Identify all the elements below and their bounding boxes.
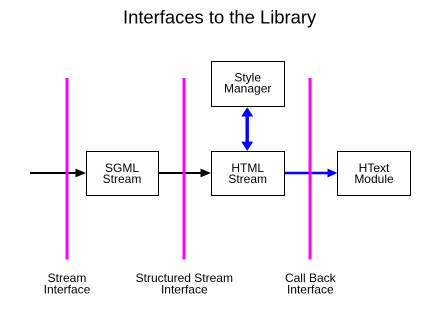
svg-text:Interfaces to the Library: Interfaces to the Library: [123, 6, 317, 27]
svg-text:Stream: Stream: [228, 172, 267, 186]
stream interface line (magenta, left): [66, 78, 69, 260]
label Stream Interface: [44, 271, 91, 297]
double arrow Style Manager / HTML Stream (blue, vertical): [241, 107, 253, 151]
box SGML Stream: [87, 152, 159, 196]
structured stream interface line (magenta, middle): [183, 78, 186, 260]
svg-text:Stream: Stream: [103, 172, 142, 186]
box HTML Stream: [212, 152, 285, 196]
box HText Module: [338, 152, 411, 196]
svg-text:Interface: Interface: [44, 283, 91, 297]
arrow HTML Stream to HText Module (blue): [284, 169, 337, 178]
call back interface line (magenta, right): [309, 78, 312, 260]
label Call Back Interface: [285, 271, 337, 297]
title: Interfaces to the Library: [123, 6, 317, 27]
svg-text:Manager: Manager: [224, 82, 271, 96]
box Style Manager: [212, 62, 285, 107]
label Structured Stream Interface: [136, 271, 233, 297]
svg-text:Interface: Interface: [287, 283, 334, 297]
arrow SGML Stream to HTML Stream (black): [158, 169, 211, 178]
svg-text:Module: Module: [354, 172, 394, 186]
svg-text:Interface: Interface: [161, 283, 208, 297]
arrow into SGML Stream (black): [30, 169, 86, 178]
